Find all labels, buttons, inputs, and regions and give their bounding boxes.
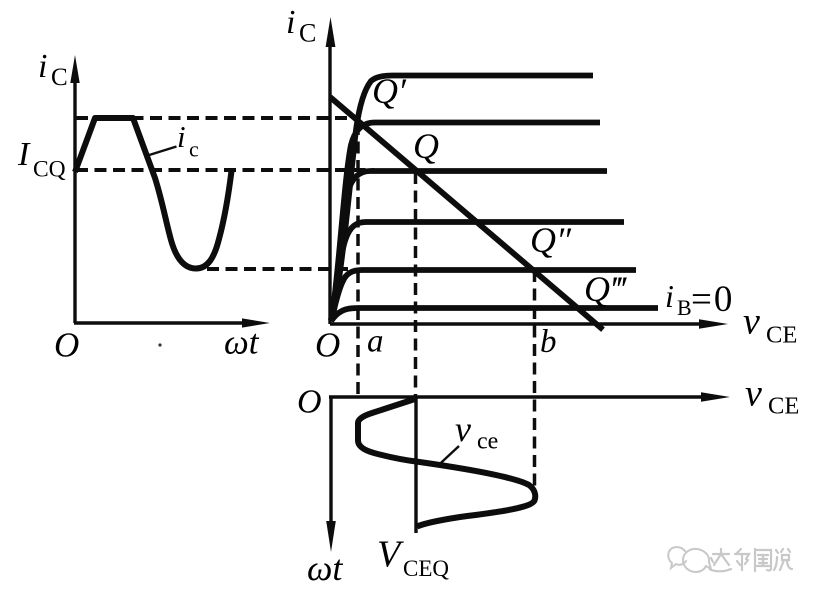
svg-text:O: O bbox=[54, 326, 79, 365]
bottom plot v_CE axis arrowhead bbox=[701, 392, 730, 401]
dashed level line I_CQ bbox=[76, 168, 374, 172]
dashed vertical at Q / V_CEQ bbox=[414, 172, 418, 396]
V_CEQ vertical line bbox=[414, 397, 417, 533]
dashed vertical at a bbox=[356, 123, 360, 397]
v_ce waveform bbox=[358, 399, 535, 527]
i_c waveform bbox=[75, 118, 232, 269]
left plot i_C axis (vertical) bbox=[73, 72, 76, 323]
bottom plot wt axis arrowhead bbox=[326, 521, 336, 552]
characteristic curve 1 bbox=[332, 76, 593, 321]
svg-text:Q″: Q″ bbox=[530, 220, 572, 260]
v_ce label pointer bbox=[437, 446, 459, 467]
svg-text:ωt: ωt bbox=[307, 548, 343, 588]
characteristic curve 4 bbox=[331, 222, 624, 320]
bottom plot wt axis (vertical, down) bbox=[329, 397, 332, 525]
characteristic curve 5 bbox=[331, 270, 636, 321]
watermark text: er bbox=[735, 549, 749, 570]
svg-text:v: v bbox=[745, 373, 762, 415]
svg-text:C: C bbox=[299, 19, 316, 48]
svg-text:Q: Q bbox=[413, 126, 439, 166]
stray speck on scan bbox=[158, 343, 161, 346]
svg-text:c: c bbox=[189, 137, 199, 162]
svg-text:v: v bbox=[743, 301, 760, 343]
dashed vertical at b bbox=[533, 270, 537, 497]
svg-text:=0: =0 bbox=[691, 279, 734, 320]
load line bbox=[330, 97, 603, 330]
svg-text:ce: ce bbox=[477, 429, 498, 455]
left plot wt axis (horizontal) bbox=[74, 321, 256, 324]
watermark icon bbox=[668, 547, 711, 572]
svg-text:v: v bbox=[455, 409, 471, 449]
svg-text:V: V bbox=[377, 534, 404, 576]
svg-text:O: O bbox=[315, 326, 340, 365]
svg-text:Q′: Q′ bbox=[372, 71, 407, 111]
left plot wt axis arrowhead bbox=[242, 318, 270, 327]
svg-text:ωt: ωt bbox=[224, 323, 260, 362]
dashed level line ic min bbox=[207, 267, 348, 271]
watermark text: shuo bbox=[774, 549, 792, 570]
svg-text:CQ: CQ bbox=[33, 157, 66, 183]
svg-text:Q‴: Q‴ bbox=[584, 269, 627, 309]
main plot v_CE axis (horizontal) bbox=[330, 322, 712, 325]
main plot v_CE axis arrowhead bbox=[699, 319, 728, 328]
svg-text:I: I bbox=[17, 136, 31, 173]
svg-text:C: C bbox=[51, 64, 68, 91]
svg-text:i: i bbox=[38, 48, 47, 85]
characteristic curve 3 bbox=[331, 171, 607, 320]
dashed level line top (ic max) bbox=[76, 116, 352, 120]
svg-text:i: i bbox=[177, 119, 186, 154]
characteristic curve 2 bbox=[332, 123, 601, 321]
svg-text:i: i bbox=[286, 4, 295, 41]
svg-text:CE: CE bbox=[766, 322, 797, 349]
svg-text:O: O bbox=[297, 384, 322, 421]
main plot i_C axis arrowhead bbox=[326, 17, 336, 47]
svg-text:CE: CE bbox=[768, 393, 799, 420]
svg-text:i: i bbox=[665, 278, 674, 314]
i_c label pointer bbox=[146, 147, 177, 157]
bottom plot v_CE axis (horizontal) bbox=[329, 395, 712, 398]
watermark text: wen bbox=[755, 549, 771, 571]
svg-text:B: B bbox=[677, 295, 692, 320]
left plot i_C axis arrowhead bbox=[70, 55, 79, 83]
watermark text: da bbox=[710, 549, 731, 571]
characteristic curve 6 iB=0 bbox=[331, 308, 658, 321]
main plot i_C axis (vertical) bbox=[328, 32, 331, 324]
svg-text:a: a bbox=[367, 324, 384, 360]
svg-text:CEQ: CEQ bbox=[403, 556, 449, 581]
svg-text:b: b bbox=[540, 324, 557, 360]
